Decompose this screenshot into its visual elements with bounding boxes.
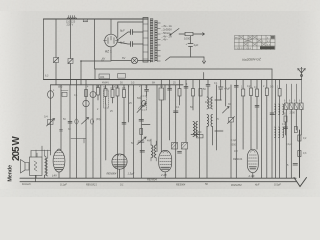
svg-text:500: 500: [137, 97, 142, 100]
wire drop 3: [70, 19, 72, 85]
rectifier tube AZ1: [104, 19, 119, 54]
svg-text:205 W: 205 W: [11, 136, 22, 161]
svg-text:2M: 2M: [116, 86, 119, 89]
svg-text:220 V: 220 V: [67, 22, 74, 26]
IFT2 lower pair: [207, 100, 223, 178]
wire stub c2: [191, 134, 200, 136]
wire rail drop left: [94, 69, 96, 80]
trimmer cap on c: [75, 119, 78, 124]
svg-text:464: 464: [100, 75, 105, 79]
switch S mains: [170, 29, 185, 36]
box m3: [182, 143, 188, 150]
resistor z1: [298, 135, 301, 151]
wire long vertical d: [85, 80, 87, 179]
resistor x2: [278, 80, 281, 179]
Mende 205 W vertical branding: [7, 136, 22, 182]
IF can dashed: [104, 90, 109, 108]
svg-text:→50mA: →50mA: [161, 31, 171, 35]
wire long vertical a2: [100, 85, 102, 178]
wire vertical k: [169, 80, 171, 141]
resistor diag s: [228, 85, 235, 178]
resistor u1: [250, 80, 253, 150]
electrolytic q: [219, 80, 231, 101]
wire long vertical a3: [105, 104, 107, 160]
wire chassis corner down: [50, 85, 52, 155]
field coil box: [30, 157, 43, 175]
trimmer cap n1: [184, 87, 188, 89]
svg-text:REN904: REN904: [147, 178, 157, 182]
labels mid column: [186, 82, 231, 106]
svg-text:1000: 1000: [184, 37, 191, 41]
capacitor k1: [168, 89, 172, 91]
wire vertical a5: [156, 85, 158, 152]
IFT2 coil pair: [207, 97, 213, 109]
resistor o2: [199, 89, 202, 97]
bandfilter coil stack A: [275, 104, 284, 114]
capacitor on wire f: [122, 123, 126, 125]
svg-text:REN1821: REN1821: [86, 184, 97, 187]
wire drop 2: [55, 19, 57, 85]
capacitor t1: [234, 86, 238, 88]
tall IF can right: [159, 88, 164, 100]
wire vertical a4: [128, 85, 130, 122]
dial lamp La: [111, 47, 151, 64]
wire vertical i: [160, 80, 162, 152]
wire heater bottom: [166, 57, 205, 61]
svg-text:RES964: RES964: [176, 184, 186, 187]
transformer Tr winding column 2: [155, 21, 158, 62]
trimmer r: [223, 80, 230, 114]
svg-text:2 AF: 2 AF: [160, 173, 167, 177]
capacitor z3: [287, 164, 298, 168]
tube V4 oval output: [233, 149, 258, 178]
wire vertical n: [185, 80, 187, 179]
svg-text:0,1µF: 0,1µF: [231, 139, 238, 142]
svg-text:0,4: 0,4: [44, 115, 48, 119]
wire vertical l: [175, 85, 177, 178]
resistor u2: [255, 80, 259, 150]
svg-text:Mende: Mende: [7, 165, 13, 182]
svg-text:4µF: 4µF: [194, 43, 199, 47]
svg-text:REN904: REN904: [107, 171, 117, 175]
svg-text:464: 464: [205, 101, 210, 104]
wire stub c1: [142, 124, 150, 126]
left column small labels: [63, 102, 132, 121]
ground symbol main: [294, 130, 307, 187]
electrolytic C3: [186, 36, 199, 57]
wire drop 4: [94, 19, 96, 69]
rail chassis: [51, 84, 184, 86]
svg-text:+: +: [186, 42, 188, 46]
resistor row R11: [104, 85, 107, 104]
svg-text:0,5µF: 0,5µF: [274, 183, 281, 187]
speaker wires: [31, 146, 51, 182]
wire to mains arrow: [193, 33, 205, 36]
svg-text:6H: 6H: [152, 82, 155, 85]
capacitor small on b: [68, 122, 72, 124]
extra bottom labels: [86, 183, 260, 187]
extra annotation labels: [53, 85, 307, 155]
svg-text:4M/4V: 4M/4V: [102, 82, 109, 85]
box m2: [172, 143, 182, 154]
component y2: [284, 127, 288, 129]
capacitor above IFT1: [140, 151, 145, 153]
resistor z2: [298, 151, 301, 157]
wire mech link: [71, 139, 86, 144]
fuse Si1: [54, 58, 59, 63]
capacitor p2: [145, 85, 149, 96]
svg-text:→4V~ 1A: →4V~ 1A: [161, 24, 172, 28]
svg-text:(30): (30): [96, 118, 100, 121]
wire long vertical e: [92, 85, 94, 178]
resistor row R12: [111, 85, 114, 103]
svg-text:5000: 5000: [196, 131, 202, 134]
transformer Tr winding column 1: [150, 19, 153, 63]
bandfilter cluster: [285, 80, 304, 179]
transformer Tr primary ladder: [143, 18, 148, 63]
fuse Si2: [68, 59, 73, 64]
wire stub c3: [203, 73, 205, 80]
svg-text:+4µF: +4µF: [224, 87, 230, 91]
IFT1 coil pair: [151, 139, 156, 161]
svg-text:0,1: 0,1: [120, 184, 124, 187]
resistor row R13: [116, 85, 119, 178]
wire vertical j: [164, 85, 166, 100]
tube V3 oval: [159, 150, 172, 178]
svg-text:4V: 4V: [102, 57, 105, 61]
labels resistor row: [96, 85, 126, 90]
wire filament line: [118, 22, 143, 38]
label mains box: [83, 19, 88, 22]
wire vertical t: [235, 80, 237, 179]
capacitor mid g: [139, 120, 144, 122]
tuning gang section 2: [134, 85, 147, 178]
resistor R mains: [184, 32, 193, 40]
resistor mid: [140, 129, 143, 135]
svg-text:RES164: RES164: [233, 158, 243, 161]
IF box small 2: [118, 74, 126, 79]
resistor n2: [192, 80, 195, 111]
svg-text:2 0 2 4 0 2 4 0 6: 2 0 2 4 0 2 4 0 6: [235, 48, 252, 50]
transformer secondary taps: [157, 23, 160, 61]
svg-text:464: 464: [147, 140, 152, 143]
svg-text:0,1µF: 0,1µF: [286, 143, 293, 146]
bandfilter coil stack B: [275, 127, 284, 137]
wire mains left drop: [43, 19, 45, 80]
tuning gang section 1: [82, 100, 94, 124]
capacitor C1 8uF: [117, 29, 143, 41]
resistor m1: [178, 80, 181, 106]
resistor o1: [197, 135, 204, 138]
antenna: [298, 68, 305, 80]
ground arrow small: [202, 57, 205, 64]
coil circle on e: [90, 92, 96, 98]
svg-text:2 AF: 2 AF: [248, 174, 255, 178]
rail B+ upper: [95, 68, 272, 70]
svg-text:→2x300V: →2x300V: [161, 28, 173, 32]
svg-text:Freisch: Freisch: [22, 182, 31, 186]
capacitor w1: [270, 113, 274, 115]
svg-text:1,3µF: 1,3µF: [128, 171, 135, 175]
heater distribution wire: [80, 57, 111, 85]
voltage selector taps: [66, 16, 77, 27]
capacitor ticks on wire a: [60, 130, 63, 132]
resistor u4: [241, 80, 244, 150]
resistor u3: [265, 80, 268, 179]
svg-text:(60): (60): [58, 86, 62, 89]
wire vertical o: [199, 80, 201, 179]
capacitor p: [206, 80, 210, 98]
IF can small mid: [141, 96, 147, 110]
capacitor C2 8uF: [117, 41, 143, 47]
transformer secondary labels: [161, 24, 173, 42]
labels bandfilter: [284, 101, 301, 103]
wire long vertical c: [76, 80, 78, 179]
bottom rail 2: [20, 181, 296, 183]
padder trimmer: [137, 137, 146, 145]
svg-text:1M: 1M: [112, 86, 115, 89]
resistor row R14: [123, 85, 126, 178]
wire vertical x1: [275, 80, 277, 179]
wire vertical a6: [216, 85, 218, 150]
wire long vertical b: [69, 85, 71, 178]
osc coil circle: [48, 91, 54, 99]
svg-text:2000: 2000: [290, 112, 296, 115]
wire mains top rail: [44, 18, 149, 20]
tube V2 round: [107, 154, 135, 178]
svg-text:6V: 6V: [122, 56, 126, 60]
wire long vertical a: [60, 85, 62, 150]
svg-text:→4V~: →4V~: [161, 38, 169, 42]
resistor z0: [294, 127, 297, 133]
svg-text:4µF: 4µF: [255, 184, 260, 187]
speaker: [21, 160, 30, 174]
output transformer coils: [36, 150, 48, 178]
wire rail drop right: [271, 69, 273, 80]
IF box small 1: [99, 74, 110, 79]
svg-text:0,1µF: 0,1µF: [60, 183, 67, 187]
wire vertical v: [260, 80, 262, 179]
wire vertical w: [271, 80, 273, 179]
svg-text:RGN354: RGN354: [231, 183, 242, 187]
svg-text:8µF: 8µF: [120, 41, 125, 45]
tube table grid: [235, 36, 276, 51]
bottom labels: [22, 178, 281, 188]
wave trap box: [61, 91, 68, 97]
bottom rail 1: [20, 177, 296, 179]
svg-text:8µF: 8µF: [120, 29, 125, 33]
svg-text:5000: 5000: [231, 144, 237, 147]
potentiometer P1: [44, 115, 55, 127]
tube V1 output: [52, 149, 65, 178]
capacitor on l: [174, 111, 179, 113]
resistor on d: [85, 90, 88, 97]
wire vertical h: [140, 85, 142, 178]
component y1: [284, 116, 287, 135]
misc label top verticals: [45, 60, 176, 89]
resistor row R10: [97, 85, 100, 100]
coil pair mid lower: [193, 122, 198, 137]
rail AVC: [44, 79, 302, 81]
svg-text:Vw205W-GZ: Vw205W-GZ: [242, 57, 262, 62]
